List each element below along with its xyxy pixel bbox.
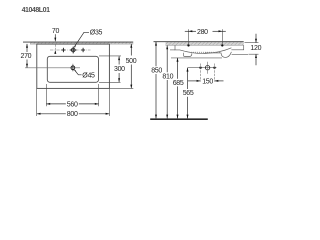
wall strip (plan view hatched band) [23,42,133,45]
svg-text:280: 280 [197,29,208,36]
svg-text:Ø45: Ø45 [82,72,95,79]
dim 810 [162,46,173,119]
floor line [150,118,208,120]
svg-text:270: 270 [21,53,32,60]
dim 500 [110,44,137,89]
drain circle [71,66,75,70]
svg-text:565: 565 [183,90,194,97]
svg-text:70: 70 [52,28,60,35]
lowest point extension line (685 reference) [171,57,222,59]
svg-text:850: 850 [151,68,162,75]
mounting centre crosshair [205,62,209,74]
dim 120 [245,34,262,65]
callout Ø45 [74,69,95,79]
rim slab (elevation hatched band) [154,42,244,46]
basin outer rectangle (plan) [37,44,110,88]
faucet centre line (dash-dot) [50,49,91,51]
basin underside outline (elevation) [170,45,248,57]
fixing hole dots on rim [187,44,189,46]
svg-text:685: 685 [173,80,184,87]
mounting holes centre line [188,67,217,69]
dim 685 [173,58,184,119]
drain centre line to 270 dim [25,67,80,69]
dim 560 [46,84,98,108]
svg-text:150: 150 [202,78,213,85]
basin inner bowl rounded rectangle (plan) [47,56,98,82]
svg-text:120: 120 [250,45,261,52]
dim 800 [37,88,110,118]
svg-text:500: 500 [126,58,137,65]
mounting bolt dots [199,67,201,69]
svg-text:Ø35: Ø35 [90,30,103,37]
dim 70 [52,28,60,54]
faucet hole left cross [61,48,65,52]
dim 565 [183,68,194,119]
svg-text:800: 800 [67,111,78,118]
faucet hole centre cross with circle [70,47,76,54]
svg-text:560: 560 [67,101,78,108]
svg-text:41048L01: 41048L01 [22,7,50,14]
bolt dash lines down to 150 dim [200,64,202,82]
bowl hatch strip (elevation) [189,51,220,53]
dim 150 [188,78,224,85]
faucet hole right cross [81,48,85,52]
dim 300 [99,56,125,82]
dim 270 [21,44,32,68]
dim 280 [185,29,226,44]
drain vertical dash line [72,64,74,73]
callout Ø35 [74,30,102,48]
svg-text:300: 300 [114,66,125,73]
dim 850 [151,42,162,119]
